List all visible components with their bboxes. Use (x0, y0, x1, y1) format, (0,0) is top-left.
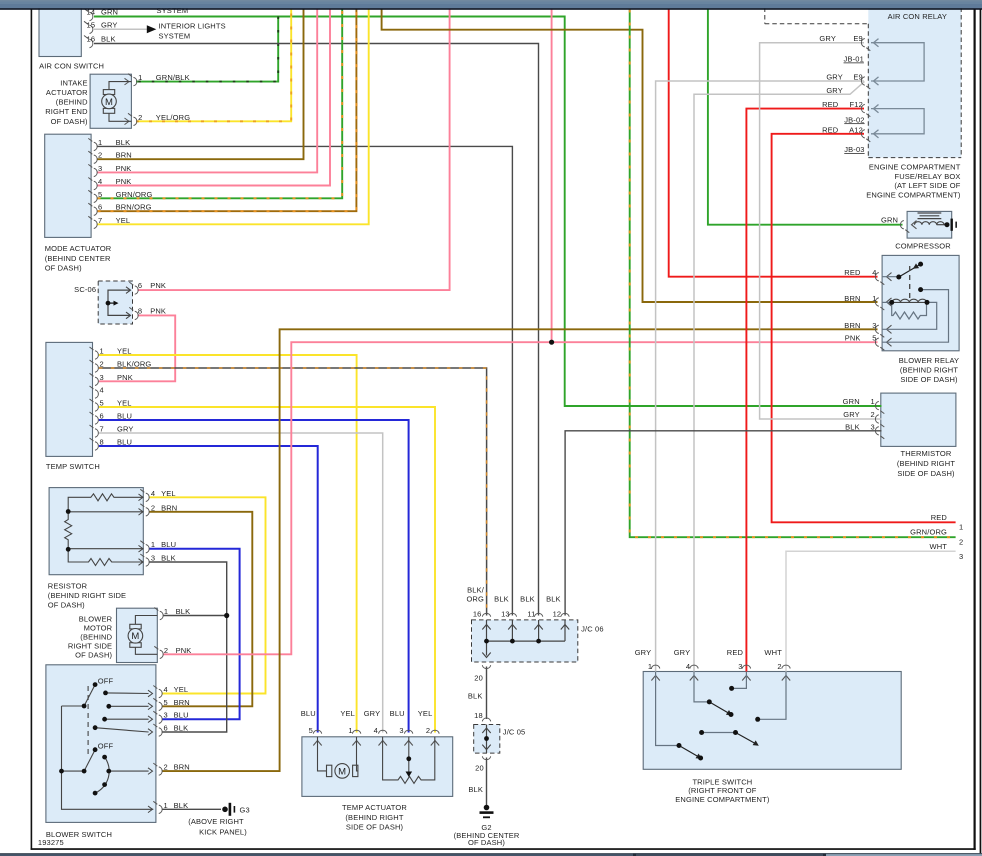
svg-text:BLK: BLK (161, 554, 176, 563)
right border lines (974, 10, 982, 854)
svg-text:(BEHIND CENTER: (BEHIND CENTER (45, 254, 111, 263)
thermistor pin labels (843, 397, 875, 431)
bottom status bar (0, 853, 982, 856)
compressor box (907, 211, 952, 238)
svg-text:OFF: OFF (98, 741, 114, 750)
wire GRN/BLK: intake actuator pin 1 branch from GRN wire (136, 17, 278, 82)
svg-text:BLK: BLK (546, 595, 561, 604)
wire GRN: air con switch pin 14 to thermistor pin 1 (94, 17, 882, 407)
svg-text:1: 1 (164, 607, 168, 616)
J/C 05 arrows and dot (482, 728, 490, 750)
svg-text:6: 6 (98, 203, 102, 212)
pin arcs mode actuator 1-7 (88, 138, 97, 228)
svg-text:(RIGHT FRONT OF: (RIGHT FRONT OF (688, 786, 756, 795)
wire GRY: air con switch pin 15 to interior lights arrow (94, 28, 147, 30)
wire YEL: temp switch pin 5 to temp actuator pin 2 (99, 407, 435, 733)
wire YEL: temp switch pin 1 to temp actuator pin 1 (99, 355, 357, 733)
svg-text:M: M (338, 766, 346, 777)
svg-text:GRN/BLK: GRN/BLK (156, 73, 190, 82)
svg-text:YEL: YEL (340, 709, 355, 718)
diagram number (38, 838, 64, 847)
resistor label (48, 581, 126, 609)
svg-text:SYSTEM: SYSTEM (159, 31, 191, 40)
thermistor label (897, 449, 955, 478)
svg-text:BLK: BLK (468, 785, 483, 794)
temp actuator label (342, 803, 407, 831)
JB-01 connector loop inside fuse box (871, 43, 924, 81)
compressor GRN label (881, 216, 898, 225)
svg-text:MOTOR: MOTOR (84, 623, 113, 632)
svg-text:6: 6 (100, 412, 104, 421)
svg-text:4: 4 (686, 662, 690, 671)
blower motor symbol M (128, 616, 157, 655)
air con switch label (39, 62, 104, 71)
svg-text:AIR CON RELAY: AIR CON RELAY (888, 12, 947, 21)
pin arcs blower motor 1,2 (154, 608, 163, 659)
wire GRN/ORG: mode actuator pin 5 up to top (98, 10, 343, 199)
svg-text:2: 2 (151, 503, 155, 512)
svg-text:YEL: YEL (117, 399, 132, 408)
svg-text:PNK: PNK (116, 177, 132, 186)
svg-text:3: 3 (872, 321, 876, 330)
svg-text:RED: RED (931, 513, 948, 522)
svg-text:2: 2 (138, 113, 142, 122)
air con relay label (888, 12, 947, 21)
svg-text:(BEHIND RIGHT: (BEHIND RIGHT (900, 365, 958, 374)
wire BRN: blower switch pin 2 to blower relay pin 3 (162, 329, 878, 771)
arrows JB-02/03 pins (874, 105, 879, 138)
JB-01 label (844, 55, 864, 64)
svg-text:RIGHT SIDE: RIGHT SIDE (68, 641, 112, 650)
svg-text:INTAKE: INTAKE (60, 78, 87, 87)
J/C 06 wire labels (466, 586, 560, 604)
arrows blower relay pin entries (887, 273, 892, 347)
svg-text:BRN: BRN (174, 763, 190, 772)
temp switch label (46, 462, 100, 471)
svg-text:GRY: GRY (826, 86, 843, 95)
svg-text:OF DASH): OF DASH) (45, 263, 82, 272)
svg-text:4: 4 (872, 268, 876, 277)
interior lights system label (159, 22, 226, 41)
svg-text:BRN: BRN (116, 151, 132, 160)
svg-text:1: 1 (151, 540, 155, 549)
blower relay internals (882, 277, 948, 343)
arrows temp actuator pin entries (313, 741, 439, 746)
svg-text:13: 13 (501, 610, 510, 619)
title bar (0, 0, 982, 10)
svg-text:4: 4 (98, 177, 102, 186)
arrows intake actuator pin entries (125, 78, 130, 124)
blower relay switch arm (899, 263, 921, 277)
svg-text:GRY: GRY (843, 410, 860, 419)
svg-text:M: M (105, 97, 113, 108)
blower relay box (882, 255, 959, 350)
svg-text:BLK/ORG: BLK/ORG (117, 360, 151, 369)
svg-text:RED: RED (844, 268, 861, 277)
JB-02/JB-03 connector loop inside fuse box (871, 109, 924, 134)
svg-text:ACTUATOR: ACTUATOR (46, 88, 88, 97)
svg-text:OF DASH): OF DASH) (75, 650, 112, 659)
J/C 06 pin 20 and BLK labels (468, 674, 483, 701)
J/C 06 label (581, 624, 604, 633)
svg-text:PNK: PNK (176, 646, 192, 655)
blower switch OFF labels (98, 677, 114, 751)
svg-text:BLK: BLK (174, 801, 189, 810)
mode actuator label (45, 244, 112, 272)
svg-text:3: 3 (151, 554, 155, 563)
svg-text:16: 16 (473, 610, 482, 619)
blower switch internals (62, 685, 154, 810)
SC-06 pin labels (138, 281, 166, 315)
svg-text:BLK/: BLK/ (467, 586, 485, 595)
pin arcs intake actuator 1,2 (128, 74, 137, 126)
arrows resistor pin entries (139, 494, 144, 565)
svg-text:JB-03: JB-03 (844, 145, 864, 154)
svg-text:BLK: BLK (468, 691, 483, 700)
svg-text:BLK: BLK (174, 724, 189, 733)
pin arcs thermistor 1,2,3 (875, 401, 884, 438)
svg-text:G3: G3 (240, 806, 250, 815)
blower relay coil (892, 299, 927, 302)
svg-text:PNK: PNK (150, 281, 166, 290)
svg-text:3: 3 (399, 726, 403, 735)
upper contact lines to pins (106, 692, 149, 695)
resistor junction dots (66, 509, 71, 552)
temp actuator wire labels (301, 709, 433, 718)
triple switch contact dots (677, 686, 761, 761)
svg-text:WHT: WHT (929, 542, 947, 551)
wire BLU: temp switch pin 6 to temp actuator pin 3 (99, 420, 409, 733)
svg-text:BLK: BLK (176, 607, 191, 616)
wire BLK: resistor pin 3 to blower switch pin 6 via blower motor junction (150, 562, 227, 732)
fuse box wire labels GRY E9 (819, 34, 862, 43)
svg-text:3: 3 (164, 711, 168, 720)
svg-text:3: 3 (98, 164, 102, 173)
svg-text:PNK: PNK (117, 373, 133, 382)
blower relay label (899, 356, 959, 384)
blower motor box (117, 608, 158, 662)
svg-text:3: 3 (959, 552, 963, 561)
svg-text:TEMP ACTUATOR: TEMP ACTUATOR (342, 803, 407, 812)
svg-text:YEL: YEL (116, 216, 131, 225)
wire PNK: mode actuator pin 3 up to top (98, 10, 318, 173)
J/C 05 junction box (474, 725, 500, 754)
svg-text:2: 2 (164, 763, 168, 772)
triple switch internals (656, 672, 786, 746)
svg-text:3: 3 (100, 373, 104, 382)
bottom border line (31, 848, 976, 850)
mode actuator box (45, 134, 91, 237)
svg-text:YEL/ORG: YEL/ORG (156, 113, 190, 122)
J/C 06 junction dots (484, 639, 541, 644)
svg-text:ORG: ORG (466, 595, 484, 604)
svg-text:BRN: BRN (844, 294, 860, 303)
blower switch pin labels (164, 685, 190, 810)
svg-text:1: 1 (100, 347, 104, 356)
wire BLU: resistor pin 1 to blower switch pin 3 (150, 549, 240, 720)
svg-text:1: 1 (959, 523, 963, 532)
intake actuator motor symbol M (102, 82, 132, 122)
svg-text:1: 1 (872, 294, 876, 303)
svg-text:3: 3 (871, 422, 875, 431)
svg-text:E9: E9 (853, 73, 862, 82)
svg-text:YEL: YEL (174, 685, 189, 694)
svg-text:OFF: OFF (98, 677, 114, 686)
svg-text:5: 5 (100, 399, 104, 408)
pin arcs temp switch 1-8 (90, 347, 99, 450)
pin3 path to coil right (882, 302, 937, 329)
wire RED: fuse box F12 to triple switch pin 3 (746, 109, 864, 672)
svg-text:GRN: GRN (881, 216, 898, 225)
pin arcs triple switch 1,4,3,2 (651, 665, 790, 668)
svg-text:4: 4 (164, 685, 168, 694)
wire PNK: SC-06 pin 6 up to top (138, 10, 450, 291)
svg-text:JB-02: JB-02 (844, 115, 864, 124)
svg-text:J/C 06: J/C 06 (581, 624, 604, 633)
svg-text:(BEHIND: (BEHIND (56, 98, 88, 107)
svg-text:BLK: BLK (520, 595, 535, 604)
upper switch arm (84, 685, 95, 706)
fuse box wire labels GRY E9 second (826, 73, 863, 82)
svg-text:SIDE OF DASH): SIDE OF DASH) (897, 469, 955, 478)
fuse box wire labels RED F12 (822, 100, 863, 109)
resistor pin labels (151, 489, 177, 563)
blower switch box (46, 665, 156, 823)
compressor internals: vents, coil, clutch (915, 213, 948, 225)
resistor box (49, 488, 143, 575)
wire BRN/ORG: mode actuator pin 6 up to top (98, 10, 357, 212)
svg-text:YEL: YEL (161, 489, 176, 498)
svg-text:GRY: GRY (674, 648, 691, 657)
svg-text:ENGINE COMPARTMENT): ENGINE COMPARTMENT) (866, 191, 961, 200)
svg-text:BRN: BRN (161, 503, 177, 512)
svg-text:YEL: YEL (418, 709, 433, 718)
intake actuator pin labels (138, 73, 190, 122)
svg-text:2: 2 (871, 410, 875, 419)
pin1 line to coil (882, 301, 892, 303)
svg-text:7: 7 (100, 425, 104, 434)
ground G3 labels (188, 806, 250, 837)
lower contact line to pin 2 (109, 770, 149, 772)
intake actuator label (45, 78, 88, 125)
svg-text:SIDE OF DASH): SIDE OF DASH) (900, 375, 958, 384)
svg-text:FUSE/RELAY BOX: FUSE/RELAY BOX (894, 172, 960, 181)
svg-text:8: 8 (100, 438, 104, 447)
svg-text:1: 1 (138, 73, 142, 82)
svg-text:2: 2 (426, 726, 430, 735)
svg-text:KICK PANEL): KICK PANEL) (199, 828, 247, 837)
svg-text:OF DASH): OF DASH) (48, 601, 85, 610)
pin arcs air con switch 14,15,16 (84, 9, 93, 48)
partial SYSTEM text cut by title bar (157, 6, 189, 15)
temp switch pin labels (100, 347, 152, 447)
svg-text:2: 2 (959, 538, 963, 547)
junction dot pink wire (549, 340, 554, 345)
svg-text:RED: RED (822, 100, 839, 109)
svg-text:BLU: BLU (174, 711, 189, 720)
svg-text:193275: 193275 (38, 838, 64, 847)
svg-text:J/C 05: J/C 05 (503, 727, 526, 736)
pin5 path up to switch contact (882, 290, 948, 343)
J/C 06 junction box (472, 620, 578, 662)
right edge connector labels RED 1 (931, 513, 964, 532)
svg-text:3: 3 (738, 662, 742, 671)
wire BLU: temp switch pin 8 to temp actuator pin 5 (99, 446, 318, 733)
left rail with bottom run to pin 1 (62, 706, 154, 809)
svg-text:E9: E9 (853, 34, 862, 43)
temp actuator pin numbers (309, 726, 431, 735)
svg-text:TEMP SWITCH: TEMP SWITCH (46, 462, 100, 471)
svg-text:8: 8 (138, 306, 142, 315)
svg-text:GRY: GRY (826, 73, 843, 82)
pin arcs blower switch 4,5,3,6,2,1 (153, 686, 162, 814)
lower switch arm (84, 750, 95, 771)
svg-text:5: 5 (98, 190, 102, 199)
pin4 line to contact (882, 276, 899, 278)
svg-text:GRY: GRY (101, 20, 118, 29)
svg-text:16: 16 (87, 35, 96, 44)
pin arcs J/C 05 18 top, 20 bottom (482, 718, 490, 760)
pin arc compressor (900, 221, 909, 233)
svg-text:(AT LEFT SIDE OF: (AT LEFT SIDE OF (894, 181, 960, 190)
svg-text:1: 1 (164, 801, 168, 810)
ground G3 symbol (222, 803, 235, 816)
wire BLK/ORG: temp switch pin 2 to J/C 06 pin 16 (99, 368, 487, 616)
blower relay dashed actuator link (909, 266, 911, 299)
svg-text:F12: F12 (850, 100, 863, 109)
svg-text:11: 11 (527, 610, 535, 619)
svg-text:OF DASH): OF DASH) (51, 117, 88, 126)
svg-text:SIDE OF DASH): SIDE OF DASH) (346, 822, 404, 831)
wire PNK: SC-06 pin 8 down to temp switch pin 3 (99, 315, 175, 381)
wire WHT: right edge connector 3 to triple switch pin 2 (786, 551, 956, 671)
compressor label (895, 242, 951, 251)
engine compartment fuse/relay box (dashed) (868, 0, 961, 158)
pin arcs SC-06 6,8 (129, 282, 138, 320)
svg-text:20: 20 (474, 674, 483, 683)
triple switch pin numbers (648, 662, 782, 671)
wire BRN: resistor pin 2 to blower switch pin 5 (150, 512, 253, 707)
wire YEL/ORG: intake actuator pin 2 up to top (136, 10, 291, 122)
lower contact arc (95, 757, 109, 793)
gang dashed link (87, 686, 89, 756)
wire YEL: resistor pin 4 to blower switch pin 4 (150, 497, 266, 693)
JB-03 label (844, 145, 864, 154)
svg-text:PNK: PNK (150, 306, 166, 315)
wire BLK: J/C 05 pin 20 to ground G2 (486, 758, 488, 806)
SC-06 junction box (98, 281, 132, 324)
intake actuator box (90, 74, 131, 128)
svg-text:4: 4 (151, 489, 155, 498)
temp actuator potentiometer (383, 737, 435, 784)
svg-text:(BEHIND RIGHT: (BEHIND RIGHT (897, 459, 955, 468)
blower switch arrows at pins (148, 690, 153, 812)
svg-text:GRY: GRY (819, 34, 836, 43)
svg-text:6: 6 (164, 724, 168, 733)
wire BLK: thermistor pin 3 to J/C 06 pin 12 (565, 431, 881, 616)
svg-text:RED: RED (822, 125, 839, 134)
temp actuator motor symbol M (318, 737, 358, 778)
svg-text:PNK: PNK (116, 164, 132, 173)
right edge connector labels GRN/ORG 2 (910, 528, 963, 547)
wire BLK: blower motor pin 1 stub to junction (163, 615, 227, 617)
svg-text:BLU: BLU (161, 540, 176, 549)
svg-text:BLU: BLU (390, 709, 405, 718)
svg-text:BLK: BLK (116, 138, 131, 147)
upper switch feed (62, 705, 85, 707)
arrows JB-01 pins (874, 39, 879, 86)
svg-text:A12: A12 (849, 125, 863, 134)
svg-text:YEL: YEL (117, 347, 132, 356)
svg-text:2: 2 (164, 646, 168, 655)
J/C 06 pin numbers (473, 610, 561, 619)
svg-text:1: 1 (871, 397, 875, 406)
wire PNK: mode actuator pin 4 up to top (98, 10, 331, 186)
triple switch box (643, 672, 901, 770)
svg-text:BRN: BRN (844, 321, 860, 330)
svg-text:ENGINE COMPARTMENT): ENGINE COMPARTMENT) (675, 795, 770, 804)
triple switch wire labels (635, 648, 783, 657)
pin arcs resistor 4,2,1,3 (140, 489, 149, 566)
wire BLK: J/C 06 pin 20 to J/C 05 pin 18 (486, 667, 488, 720)
wire PNK: blower motor pin 2 to blower relay pin 5 (163, 342, 878, 654)
arrow interior lights (147, 25, 157, 33)
svg-text:BLU: BLU (301, 709, 316, 718)
ground G2 symbol (480, 805, 494, 819)
arrows triple switch pin entries (651, 676, 790, 681)
svg-text:RED: RED (727, 648, 744, 657)
wire PNK: branch from top to junction on pink wire (551, 10, 553, 343)
svg-text:20: 20 (475, 763, 484, 772)
ground G2 labels (454, 823, 520, 847)
wire GRN/ORG: from top down to right edge connector 2 (630, 10, 956, 538)
svg-text:MODE ACTUATOR: MODE ACTUATOR (45, 244, 112, 253)
resistor internals (two zigzags, rail, vertical zigzag) (65, 494, 144, 566)
svg-text:2: 2 (98, 151, 102, 160)
svg-text:JB-01: JB-01 (844, 55, 864, 64)
svg-text:TRIPLE SWITCH: TRIPLE SWITCH (692, 777, 752, 786)
temp switch box (46, 342, 93, 456)
wire RED: from top down to blower relay pin 4 (669, 10, 878, 277)
wire GRY: temp switch pin 7 to temp actuator pin 4 (99, 433, 383, 733)
wire BLK: mode actuator pin 1 to J/C 06 pin 13 (98, 146, 513, 615)
resistor parallel path (892, 302, 927, 319)
wire RED: fuse box A12 to right edge connector 1 (772, 134, 956, 523)
svg-text:GRN: GRN (843, 397, 860, 406)
SC-06 label (74, 285, 96, 294)
svg-text:4: 4 (374, 726, 378, 735)
arrow compressor pin entry (912, 221, 917, 229)
wire GRY: fuse box E9 (JB-02) to triple switch pin 1 (656, 81, 864, 672)
J/C 06 arrows (482, 625, 569, 658)
thermistor box (881, 393, 956, 446)
mode actuator pin labels (98, 138, 152, 225)
lower switch feed (62, 770, 85, 772)
wire GRN: from top down to compressor (708, 10, 903, 225)
blower motor pin labels (164, 607, 192, 655)
blower relay dots (889, 262, 929, 305)
blower switch contact dots (59, 682, 111, 795)
junction dot blower motor pin1/resistor BLK (224, 613, 229, 618)
pin arcs blower relay 4,1,3,5 (875, 273, 884, 351)
svg-text:1: 1 (648, 662, 652, 671)
svg-text:(BEHIND RIGHT SIDE: (BEHIND RIGHT SIDE (48, 591, 126, 600)
svg-text:RESISTOR: RESISTOR (48, 581, 88, 590)
air con relay dashed box (cut off at top) (765, 0, 869, 24)
wire BLK: air con switch pin 16 to J/C 06 pin 11 (94, 44, 539, 616)
svg-text:BLK: BLK (101, 35, 116, 44)
wire BRN: mode actuator pin 2 up to top (98, 10, 304, 160)
